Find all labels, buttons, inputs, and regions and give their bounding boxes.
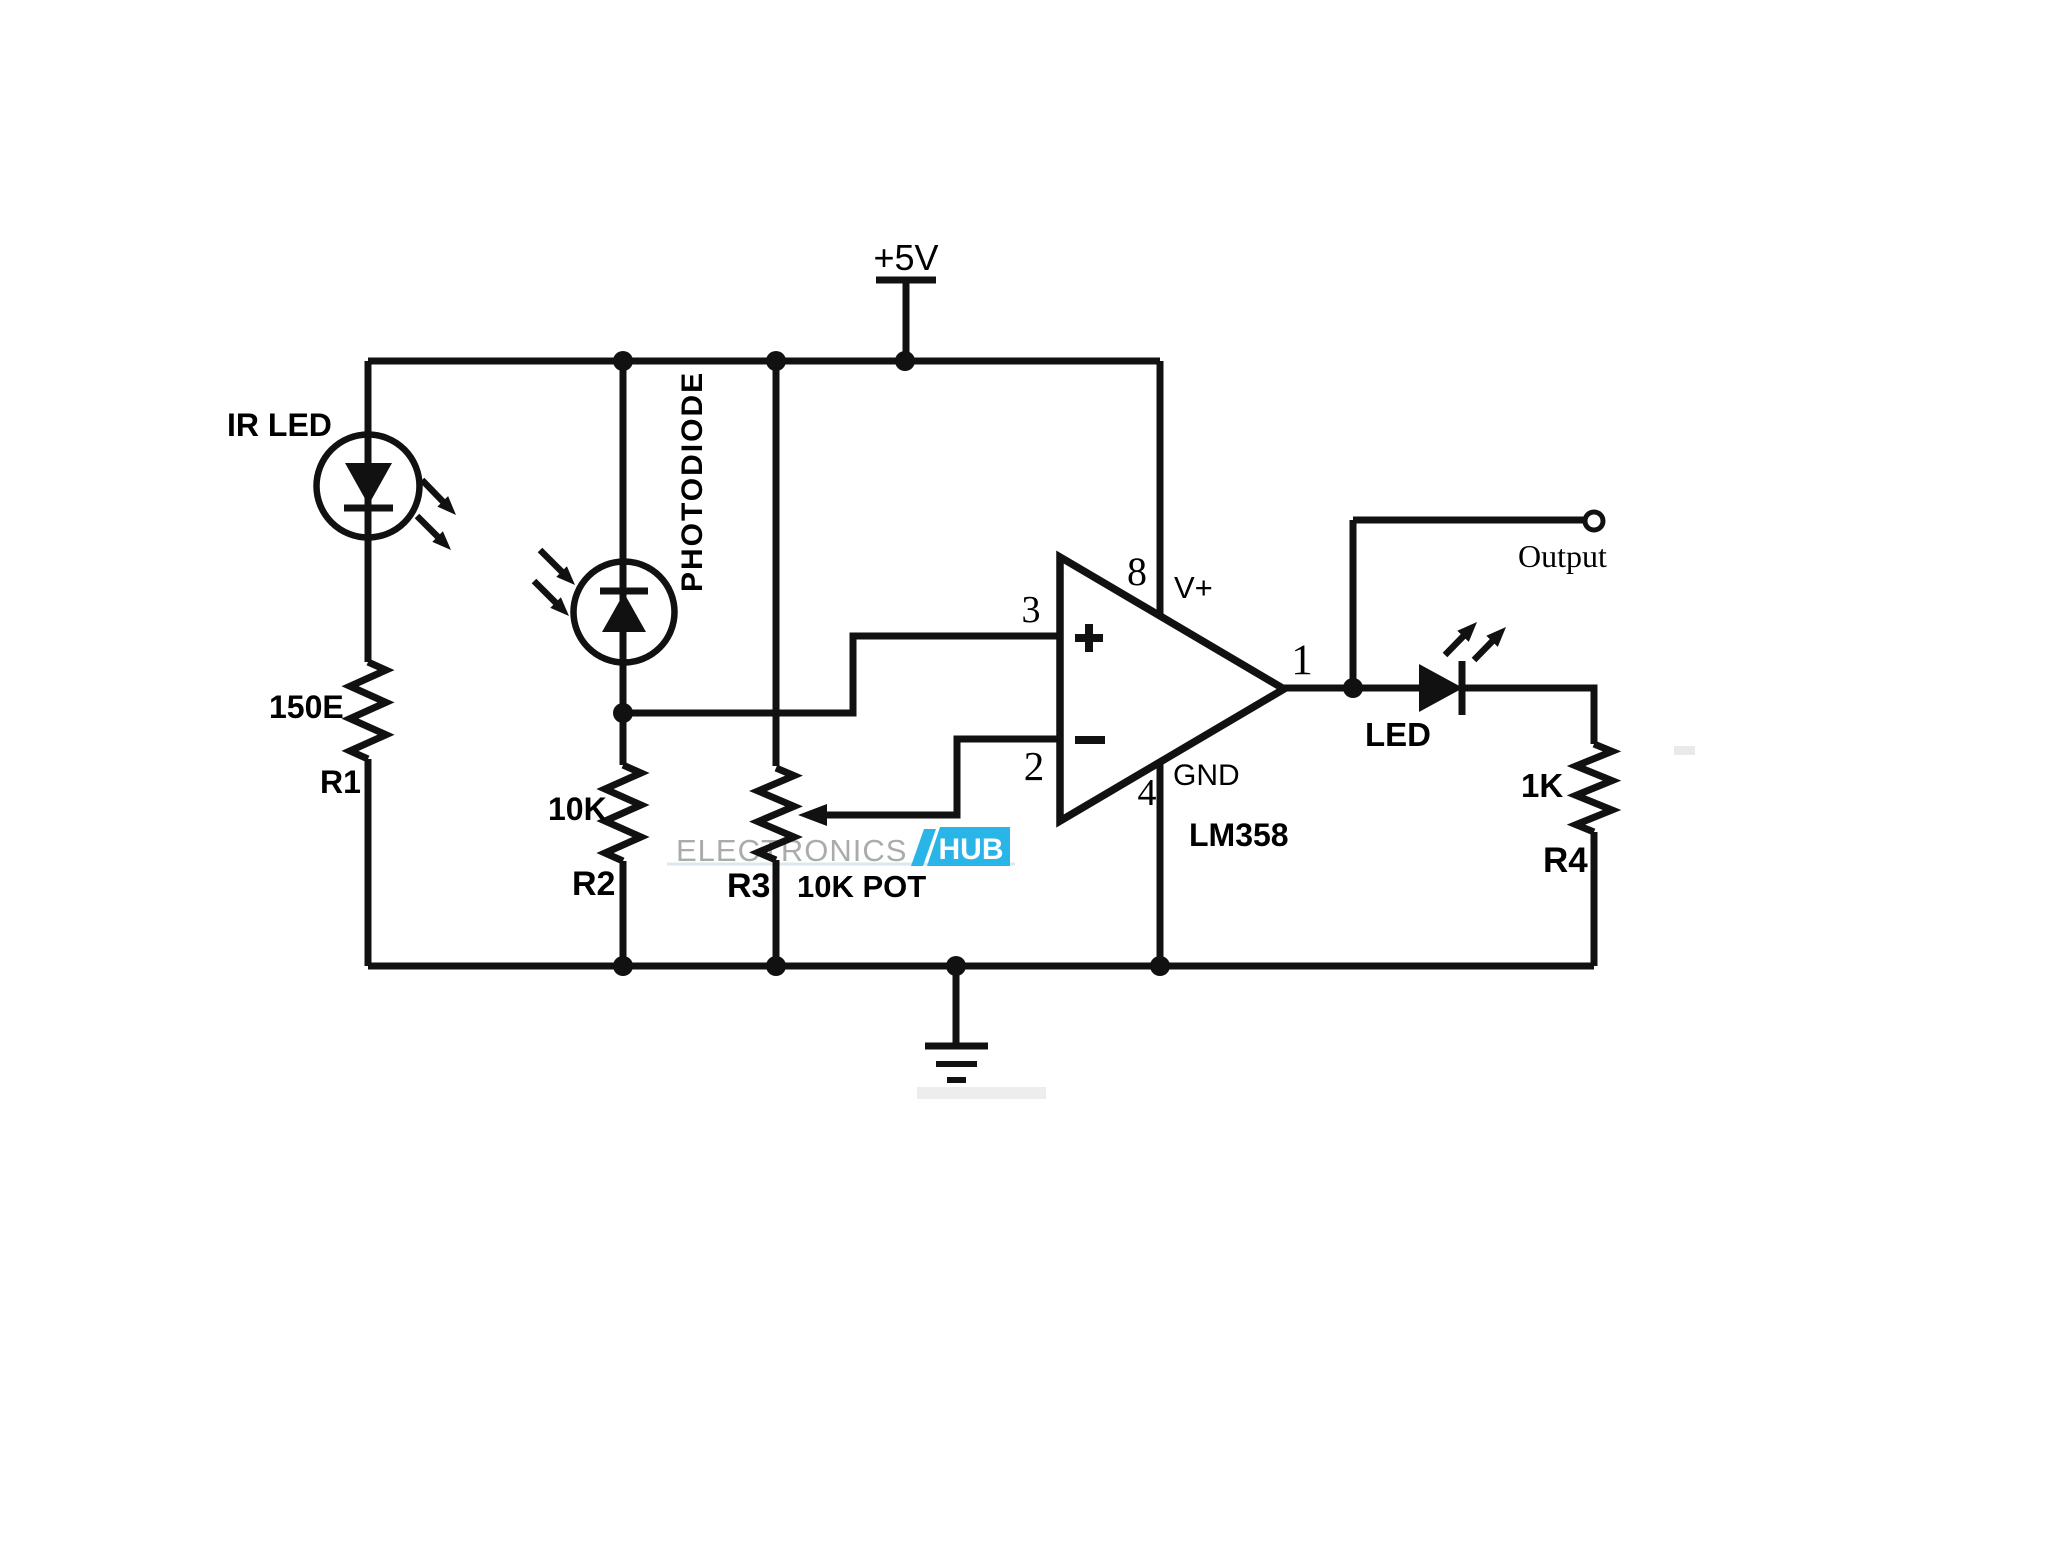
svg-text:Output: Output [1518, 538, 1607, 574]
svg-text:150E: 150E [269, 689, 344, 725]
svg-text:1: 1 [1291, 637, 1313, 684]
svg-text:HUB: HUB [939, 833, 1004, 866]
svg-text:+5V: +5V [873, 237, 938, 278]
svg-text:3: 3 [1022, 589, 1041, 631]
svg-text:2: 2 [1024, 743, 1045, 789]
svg-text:V+: V+ [1174, 570, 1213, 605]
svg-text:R1: R1 [320, 764, 361, 800]
svg-text:R4: R4 [1543, 841, 1588, 880]
svg-text:GND: GND [1173, 759, 1240, 792]
svg-text:8: 8 [1127, 549, 1147, 594]
svg-text:LED: LED [1365, 716, 1431, 753]
svg-text:LM358: LM358 [1189, 817, 1289, 853]
svg-text:10K POT: 10K POT [797, 869, 926, 904]
svg-text:1K: 1K [1521, 767, 1563, 804]
svg-text:IR LED: IR LED [227, 407, 332, 443]
svg-text:PHOTODIODE: PHOTODIODE [676, 371, 709, 592]
svg-text:R3: R3 [727, 867, 770, 905]
svg-text:R2: R2 [572, 865, 615, 903]
svg-text:10K: 10K [548, 791, 607, 827]
svg-text:4: 4 [1138, 772, 1157, 814]
